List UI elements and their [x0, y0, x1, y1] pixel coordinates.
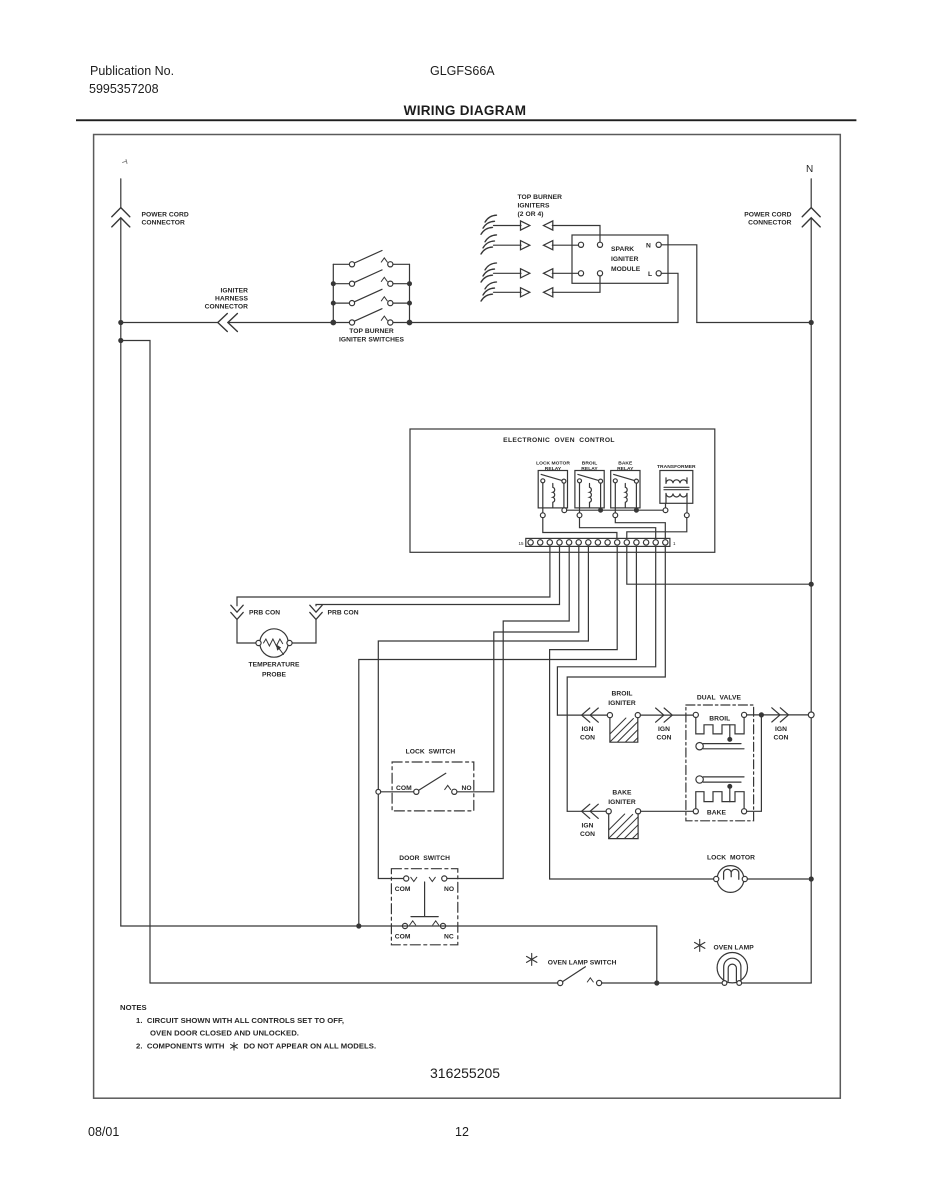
spark igniter module U1 box: [572, 235, 668, 283]
svg-text:RELAY: RELAY: [545, 466, 562, 472]
svg-text:Publication No.: Publication No.: [90, 64, 174, 78]
svg-text:CON: CON: [773, 735, 788, 742]
wire bake valve right to broil row junction: [747, 715, 762, 811]
door switch dashed box: [391, 869, 457, 945]
svg-text:12: 12: [455, 1125, 469, 1139]
svg-text:5995357208: 5995357208: [89, 82, 159, 96]
svg-text:OVEN LAMP: OVEN LAMP: [714, 945, 755, 952]
svg-text:IGNITER: IGNITER: [608, 700, 636, 707]
svg-text:BROIL: BROIL: [611, 691, 632, 698]
top burner igniter 2 spark gap: [481, 235, 553, 254]
svg-text:NO: NO: [444, 886, 454, 893]
svg-text:BROIL: BROIL: [582, 461, 597, 467]
relay K1 lock motor relay: [538, 471, 567, 518]
transformer T1: [660, 471, 693, 518]
svg-text:CONNECTOR: CONNECTOR: [142, 220, 186, 227]
top burner igniter 4 spark gap: [481, 282, 553, 301]
EOC board connector strip: [526, 538, 670, 546]
lock switch dashed box: [392, 762, 474, 811]
wire transformer to pin 5: [627, 518, 687, 539]
wire: main top line left segment: [121, 322, 333, 324]
svg-text:IGNITERS: IGNITERS: [518, 203, 550, 210]
junction dot oven lamp line: [655, 981, 659, 985]
strip pin circle 10: [576, 540, 581, 545]
junction dot lock motor at N bus: [809, 877, 813, 881]
relay K2 broil relay: [575, 471, 604, 518]
scan speck near left power cord: [123, 160, 128, 164]
svg-text:2. COMPONENTS WITH: 2. COMPONENTS WITH: [136, 1042, 225, 1051]
strip pin circle 12: [557, 540, 562, 545]
strip pin circle 9: [586, 540, 591, 545]
igniter switch 4: [333, 309, 409, 325]
svg-text:OVEN LAMP SWITCH: OVEN LAMP SWITCH: [548, 960, 617, 967]
junction dot bake feed on broil row: [759, 713, 763, 717]
svg-text:NC: NC: [444, 934, 454, 941]
svg-text:MODULE: MODULE: [611, 266, 641, 273]
svg-text:IGN: IGN: [581, 726, 593, 733]
note 2 asterisk: [231, 1043, 238, 1051]
wire pin2 to broil igniter row: [557, 546, 655, 715]
bake valve coil: [693, 785, 747, 814]
svg-text:COM: COM: [396, 785, 412, 792]
junction dot L branch: [119, 339, 123, 343]
svg-text:OVEN DOOR CLOSED AND UNLOCKED.: OVEN DOOR CLOSED AND UNLOCKED.: [150, 1029, 299, 1038]
strip pin circle 14: [538, 540, 543, 545]
svg-text:1: 1: [673, 541, 676, 546]
svg-text:PRB CON: PRB CON: [328, 610, 359, 617]
broil valve coil: [693, 712, 747, 741]
svg-text:N: N: [646, 243, 651, 250]
wire: L branch to left bus: [121, 341, 150, 984]
wire oven lamp line right segment: [742, 982, 812, 984]
svg-text:PROBE: PROBE: [262, 672, 287, 679]
wire pin5 to N bus: [627, 546, 811, 584]
wire pin13 to PRB CON left: [237, 546, 550, 643]
strip pin circle 3: [643, 540, 648, 545]
top burner igniter switches box buses: [333, 264, 409, 322]
svg-text:LOCK MOTOR: LOCK MOTOR: [536, 461, 570, 467]
bake igniter element (hatched): [606, 809, 641, 839]
svg-text:L: L: [648, 271, 652, 278]
svg-text:RELAY: RELAY: [617, 466, 634, 472]
strip pin circle 15: [528, 540, 533, 545]
svg-text:BROIL: BROIL: [709, 716, 730, 723]
svg-text:BAKE: BAKE: [618, 461, 633, 467]
top burner igniter 3 spark gap: [481, 263, 553, 282]
svg-text:CONNECTOR: CONNECTOR: [748, 220, 792, 227]
svg-text:SPARK: SPARK: [611, 246, 634, 253]
asterisk oven lamp switch: [527, 953, 537, 965]
svg-text:DUAL VALVE: DUAL VALVE: [697, 695, 742, 702]
title underline rule: [76, 119, 856, 121]
dual valve dashed box: [686, 705, 754, 821]
oven lamp DS1: [717, 953, 747, 986]
wire mid line L to oven lamp junction: [121, 926, 657, 983]
svg-text:POWER CORD: POWER CORD: [142, 212, 189, 219]
svg-text:IGNITER: IGNITER: [221, 288, 249, 295]
strip pin circle 1: [663, 540, 668, 545]
svg-text:CON: CON: [656, 735, 671, 742]
PRB CON left connector chevrons: [231, 605, 243, 619]
svg-text:PRB CON: PRB CON: [249, 610, 280, 617]
wire igniter1 to module pin: [552, 226, 600, 243]
svg-text:COM: COM: [395, 934, 411, 941]
wire pin10 to lock switch NO: [457, 546, 579, 791]
module pin circles left: [578, 242, 583, 247]
wire pin4 to oven lamp line: [359, 546, 637, 926]
temperature probe RT1: [256, 629, 292, 657]
svg-text:08/01: 08/01: [88, 1125, 119, 1139]
svg-text:LOCK MOTOR: LOCK MOTOR: [707, 855, 755, 862]
svg-text:TOP BURNER: TOP BURNER: [518, 194, 563, 201]
igniter switch 3: [333, 289, 409, 305]
junction dot L top line: [119, 321, 123, 325]
door switch pole 2 (NC): [402, 921, 445, 929]
svg-text:DO NOT APPEAR ON ALL MODELS.: DO NOT APPEAR ON ALL MODELS.: [244, 1042, 377, 1051]
svg-text:WIRING DIAGRAM: WIRING DIAGRAM: [404, 103, 527, 118]
lock switch: [381, 773, 457, 794]
strip pin circle 11: [566, 540, 571, 545]
broil igniter element (hatched): [607, 713, 640, 743]
door switch pole 1 (NO): [404, 876, 447, 882]
svg-text:LOCK SWITCH: LOCK SWITCH: [406, 749, 456, 756]
strip pin circle 13: [547, 540, 552, 545]
svg-text:IGN: IGN: [581, 823, 593, 830]
bake valve armature pointer: [696, 776, 744, 783]
svg-text:BAKE: BAKE: [612, 790, 632, 797]
svg-text:POWER CORD: POWER CORD: [744, 212, 791, 219]
broil igniter row wire: [557, 714, 607, 716]
junction dot pin4 wire at mid line: [357, 924, 361, 928]
svg-text:IGN: IGN: [775, 726, 787, 733]
wire oven lamp line left segment: [150, 982, 558, 984]
svg-text:GLGFS66A: GLGFS66A: [430, 64, 495, 78]
strip pin circle 4: [634, 540, 639, 545]
igniter harness connector chevrons: [218, 314, 238, 332]
svg-text:IGN: IGN: [658, 726, 670, 733]
svg-text:IGNITER: IGNITER: [608, 799, 636, 806]
wire pin12 to PRB CON right: [292, 546, 559, 643]
wire pin9 to lock switch COM and door switch COM: [378, 546, 588, 878]
strip pin circle 7: [605, 540, 610, 545]
svg-text:IGNITER SWITCHES: IGNITER SWITCHES: [339, 337, 405, 344]
broil valve armature pointer: [696, 743, 744, 750]
relay K3 bake relay: [611, 471, 640, 518]
terminal circle broil row at N bus: [808, 712, 814, 718]
wire pin1 to bake igniter row: [567, 546, 665, 811]
wire pin6 to lock motor: [550, 546, 714, 879]
IGN CON chevrons broil right: [772, 708, 789, 722]
svg-text:CONNECTOR: CONNECTOR: [205, 304, 249, 311]
svg-text:(2 OR 4): (2 OR 4): [518, 211, 544, 218]
svg-text:NO: NO: [462, 785, 472, 792]
lock motor M1: [714, 866, 748, 893]
PRB CON right connector chevrons: [310, 605, 322, 619]
svg-text:BAKE: BAKE: [707, 810, 727, 817]
junction dot N bus top: [809, 321, 813, 325]
oven lamp switch: [558, 967, 602, 986]
wire module L to main line: [661, 273, 678, 322]
electronic oven control box: [410, 429, 715, 552]
wire module N to bus: [661, 245, 697, 323]
svg-text:ELECTRONIC OVEN CONTROL: ELECTRONIC OVEN CONTROL: [503, 437, 615, 444]
svg-text:COM: COM: [395, 886, 411, 893]
EOC internal supply bus: [562, 508, 668, 513]
svg-text:DOOR SWITCH: DOOR SWITCH: [399, 855, 450, 862]
wire igniter4 to module pin: [552, 276, 600, 292]
wire igniter3 to module pin: [552, 272, 578, 274]
wire: main top line mid segment: [410, 322, 679, 324]
svg-text:CON: CON: [580, 831, 595, 838]
wire oven lamp line mid segment: [602, 982, 722, 984]
strip pin circle 8: [595, 540, 600, 545]
svg-text:NOTES: NOTES: [120, 1003, 147, 1012]
wire broil relay coil to pin 2: [580, 518, 656, 539]
svg-text:RELAY: RELAY: [581, 466, 598, 472]
wire bake relay coil to pin 1: [615, 518, 665, 539]
IGN CON chevrons broil mid: [656, 708, 673, 722]
power cord connector N (right): [802, 179, 820, 983]
svg-text:N: N: [806, 164, 813, 175]
svg-text:HARNESS: HARNESS: [215, 296, 249, 303]
junction dot pin5 wire at N bus: [809, 582, 813, 586]
svg-text:IGNITER: IGNITER: [611, 256, 639, 263]
wire pin11 to door switch NO: [447, 546, 569, 878]
wire lock motor to N bus: [747, 878, 808, 880]
svg-text:TEMPERATURE: TEMPERATURE: [249, 662, 300, 669]
power cord connector L (left): [112, 179, 130, 926]
asterisk oven lamp: [695, 939, 705, 951]
wire broil valve to N bus: [747, 714, 809, 716]
strip pin circle 5: [624, 540, 629, 545]
svg-text:1. CIRCUIT SHOWN WITH ALL CON: 1. CIRCUIT SHOWN WITH ALL CONTROLS SET T…: [136, 1016, 344, 1025]
wire igniter2 to module pin: [552, 244, 578, 246]
svg-text:316255205: 316255205: [430, 1065, 500, 1081]
lock switch COM terminal: [376, 789, 381, 794]
wire bake igniter to valve: [641, 810, 694, 812]
strip pin circle 2: [653, 540, 658, 545]
diagram border frame: [94, 135, 841, 1099]
svg-text:TOP BURNER: TOP BURNER: [349, 328, 394, 335]
wire broil igniter to valve: [640, 714, 693, 716]
strip pin circle 6: [615, 540, 620, 545]
bake igniter row wire: [567, 810, 606, 812]
top burner igniter 1 spark gap: [481, 215, 553, 234]
igniter switch 2: [333, 270, 409, 286]
igniter switch 1: [333, 251, 409, 267]
wire: N side top segment to bus: [697, 322, 811, 324]
svg-text:CON: CON: [580, 735, 595, 742]
IGN CON chevrons bake left: [582, 804, 599, 818]
IGN CON chevrons broil left: [582, 708, 599, 722]
wire lock relay coil to pin 6: [543, 518, 617, 539]
svg-text:15: 15: [518, 541, 524, 546]
door switch actuator link: [411, 882, 438, 917]
svg-text:TRANSFORMER: TRANSFORMER: [657, 464, 696, 470]
